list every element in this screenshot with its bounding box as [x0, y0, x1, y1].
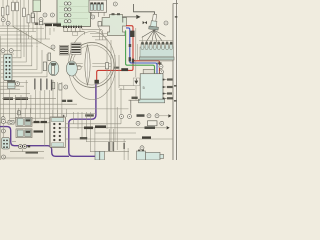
wire stubs below relay box [92, 12, 104, 17]
voltage regulator U1 [102, 13, 126, 35]
arrow A1 [123, 17, 136, 23]
resistor R6 [105, 63, 108, 69]
fuse F7 [32, 15, 35, 23]
node 6 [6, 21, 10, 25]
splice S2 [129, 44, 132, 47]
label GRB5 [80, 137, 87, 139]
relay K2 label [34, 130, 44, 132]
ground arrow G1 [133, 78, 139, 86]
splice S1 [130, 31, 134, 37]
node 25 [159, 65, 163, 69]
node 13b [1, 120, 5, 124]
hatched relay block 2 [71, 43, 81, 55]
vertical wire labels mid-left [34, 79, 52, 91]
connector X3 bottom-center [50, 117, 65, 147]
actuator M2 [137, 150, 164, 160]
symbol row 1 [120, 114, 172, 119]
label GIAER8 [26, 151, 39, 153]
wheel spokes [73, 64, 112, 67]
wire purple left branch [0, 127, 69, 157]
node 8 [64, 85, 68, 89]
resistor R4 [43, 62, 46, 71]
bowtie symbol [143, 21, 147, 24]
node 7 [51, 45, 55, 49]
node 30 [140, 146, 144, 150]
resistor R8 [59, 84, 62, 90]
label KERB on red wire [121, 68, 128, 71]
node 15 [1, 117, 5, 121]
resistor R5 [52, 66, 55, 75]
label 8LB-KBB [84, 125, 106, 129]
node 3 [50, 13, 54, 17]
vertical labels ARDB [108, 142, 125, 151]
comb feed wires [139, 36, 173, 43]
connector X1 fan wires [12, 30, 47, 77]
terminal marks [35, 22, 39, 25]
node 34 [160, 70, 164, 74]
terminal marks below comb [158, 62, 162, 64]
sensor box left [8, 81, 16, 89]
ECU pins [163, 78, 173, 99]
wire red R-bat [97, 26, 133, 80]
node 1 [39, 18, 43, 22]
relay K1 label [34, 121, 48, 123]
fuse box A inner circles [64, 2, 71, 23]
wire purple main [69, 84, 98, 157]
twin terminals [18, 145, 30, 149]
steering column lens [85, 45, 90, 85]
horn button [77, 65, 81, 69]
symbol row 2 [136, 121, 170, 130]
fuse box A pin row [63, 26, 82, 28]
solenoid bottom-center [95, 151, 104, 160]
relay K2 bottom-left [16, 129, 32, 138]
wires above X3 [53, 110, 67, 117]
bottom mid vertical runs right [110, 88, 128, 160]
resistor R3 [48, 53, 51, 61]
splice S3 [129, 57, 131, 61]
wire blue B-sig [126, 28, 157, 75]
wire vertical x136 [135, 28, 137, 77]
node 1a [1, 49, 5, 53]
wire red branch to ECU [133, 59, 160, 74]
bottom-center vertical runs [74, 112, 95, 152]
node 4 [43, 13, 47, 17]
mid-left vertical runs [4, 80, 67, 146]
hatched relay block 1 [60, 46, 69, 56]
node 11 [113, 2, 117, 6]
label P15L8 on purple [85, 114, 94, 116]
wire to ECU left [129, 100, 141, 113]
node 9 [16, 82, 20, 86]
motor M1 small [8, 121, 14, 125]
splice S4 [132, 59, 134, 63]
cluster top tab [73, 32, 78, 36]
gauge oval 1 [48, 61, 59, 75]
fuse F1 [1, 8, 4, 17]
spark plug P1 [149, 14, 160, 30]
connector X4 small [2, 138, 10, 149]
fuse box A (large green) [57, 0, 91, 27]
resistor R2 [98, 22, 102, 26]
junction red-purple [95, 80, 99, 84]
relay cells [90, 2, 103, 10]
label MCB2-PLR [44, 23, 61, 25]
node 11b [1, 129, 5, 133]
gauge oval 2 [66, 61, 77, 76]
fuse F8 [18, 111, 21, 115]
bottom horizontal runs [60, 124, 173, 152]
relay K0 small [31, 13, 34, 18]
steering wheel rim inner [73, 45, 112, 85]
relay K1 bottom-left [16, 117, 32, 126]
bottom-left stub wires [3, 108, 44, 158]
wire mesh left of U1 [90, 26, 107, 40]
node 26 [164, 21, 168, 25]
node 2 [1, 18, 5, 22]
label row GBLB-8LMC5 [3, 97, 28, 100]
wire drops below fuse box A [64, 28, 103, 35]
background paper [0, 0, 178, 160]
steering wheel rim outer [70, 43, 114, 88]
ECU box [140, 74, 163, 100]
resistor R7 [52, 83, 55, 89]
connector X1 left [4, 54, 12, 80]
wire mesh: top-left horizontal runs [0, 26, 50, 54]
fuse F3 [12, 2, 15, 11]
fuse F5 [23, 8, 26, 17]
label 8L8 vertical [63, 115, 64, 125]
headlamp connector comb [140, 42, 175, 61]
label GRL2B [142, 136, 151, 138]
node 16 [2, 155, 6, 159]
paper tone overlay [0, 0, 178, 160]
wire green G-sig [126, 30, 155, 74]
wire diagonal top-left [13, 27, 55, 52]
node 13 [9, 49, 13, 53]
spark rays [142, 30, 166, 43]
fuse F6 [27, 15, 30, 23]
mid-left horizontal runs [0, 82, 129, 122]
center-right vertical runs [107, 40, 135, 152]
fuse F4 [16, 2, 19, 11]
label KERB mid [62, 100, 73, 102]
relay module box top [89, 0, 107, 12]
spark plug wire [134, 4, 155, 15]
fuse F2 [6, 6, 9, 15]
connector atop ECU [143, 70, 154, 76]
junction box top-left [33, 0, 41, 12]
resistor R1 [39, 20, 42, 25]
page border right [173, 0, 178, 160]
scan edge left [0, 36, 2, 160]
wire mesh: top-left vertical runs [3, 0, 54, 57]
node 20 [91, 15, 95, 19]
connector X1 left stubs [1, 58, 4, 77]
border ticks [174, 85, 177, 102]
dashboard dome outline [69, 32, 116, 100]
